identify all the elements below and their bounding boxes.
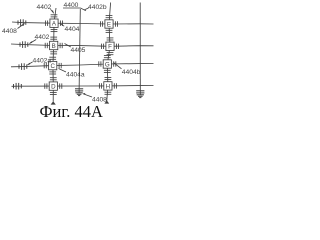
capacitor plates left of cell E: [101, 21, 103, 26]
capacitor plates left of cell C: [44, 63, 46, 68]
capacitor plates left of cell A: [46, 21, 48, 26]
svg-text:4402: 4402: [35, 34, 50, 41]
memory cell B (4405): [50, 41, 58, 50]
label 4408 (left word line): [2, 23, 25, 35]
ground (right plate line): [137, 93, 144, 98]
capacitor plates below cell G: [104, 70, 111, 72]
wire plate line (vertical between columns): [79, 9, 80, 91]
label 4400 (array reference, underlined): [63, 2, 86, 11]
capacitor plates left of cell H: [99, 83, 101, 88]
capacitor plates right of cell H: [114, 83, 116, 88]
capacitor plates left of cell G: [99, 61, 101, 66]
memory cell E: [105, 20, 113, 29]
memory cell C (4404a): [49, 61, 57, 70]
arrowhead at bottom of column 2 bit line: [104, 100, 109, 103]
svg-text:G: G: [105, 61, 110, 68]
capacitor plates right of cell A: [60, 21, 62, 26]
svg-text:B: B: [52, 43, 56, 50]
wire word line 4 (horizontal row 4): [12, 85, 154, 88]
capacitor 4402 in word line 2: [20, 41, 28, 48]
capacitor plates left of cell F: [102, 44, 104, 49]
capacitor plates above cell F: [107, 38, 114, 40]
svg-text:4404: 4404: [65, 26, 80, 33]
capacitor plates below cell H: [105, 92, 112, 94]
wire word line 2 (horizontal row 2): [11, 44, 154, 46]
svg-text:4404a: 4404a: [66, 72, 85, 79]
label 4404a (cell C): [59, 69, 85, 79]
svg-text:4402b: 4402b: [88, 4, 107, 11]
wire bit line through cells A-D (column 1 vertical): [53, 8, 56, 102]
svg-text:D: D: [51, 84, 56, 91]
capacitor plates left of cell B: [45, 43, 47, 48]
label 4408 (ground at plate line): [82, 93, 107, 104]
svg-text:E: E: [107, 21, 111, 28]
capacitor plates above cell C: [49, 57, 56, 59]
svg-text:4408: 4408: [2, 28, 17, 35]
capacitor plates above cell D: [50, 78, 57, 80]
memory cell A (4404): [50, 19, 58, 28]
capacitor plates right of cell D: [60, 83, 62, 88]
capacitor plates right of cell G: [114, 61, 116, 66]
capacitor plates right of cell B: [60, 43, 62, 48]
label 4402a (capacitor in word line 3): [27, 57, 51, 65]
capacitor plates above cell A: [51, 15, 58, 17]
capacitor above ground (right plate line): [136, 91, 144, 93]
wire word line 1 (horizontal row 1): [12, 22, 154, 24]
capacitor plates below cell D: [50, 92, 57, 94]
capacitor plates left of cell D: [45, 83, 47, 88]
svg-text:4402a: 4402a: [33, 57, 52, 64]
label 4402b (capacitor top right): [84, 4, 107, 11]
svg-text:C: C: [50, 63, 55, 70]
label 4402 (top, capacitor above cell A): [37, 4, 54, 14]
capacitor above ground 4408 (center plate line): [75, 89, 83, 91]
svg-text:4405: 4405: [71, 47, 86, 54]
capacitor plates below cell A: [51, 30, 58, 32]
capacitor plates above cell H: [105, 78, 112, 80]
capacitor plates right of cell C: [59, 63, 61, 68]
memory cell G (4404b): [103, 60, 111, 69]
svg-text:4404b: 4404b: [122, 69, 141, 76]
memory cell F: [106, 42, 114, 51]
capacitor plates below cell C: [49, 72, 56, 74]
svg-text:Фиг. 44А: Фиг. 44А: [40, 102, 104, 120]
capacitor 4402a in word line 3: [19, 63, 27, 70]
capacitor plates below cell F: [107, 53, 114, 55]
arrowhead at bottom of column 1 bit line: [51, 101, 56, 104]
capacitor plates below cell E: [106, 30, 113, 32]
ground 4408 (center plate line): [76, 91, 83, 96]
wire bit line through cells E-H (column 2 vertical): [107, 3, 111, 101]
capacitor 4402 in word line 4: [14, 83, 22, 90]
capacitor plates above cell B: [50, 37, 57, 39]
svg-text:F: F: [108, 44, 112, 51]
label 4404b (cell G): [114, 63, 141, 76]
label 4404 (cell A): [61, 24, 80, 33]
memory cell H: [104, 82, 112, 91]
wire word line 3 (horizontal row 3): [11, 64, 154, 67]
label 4402 (capacitor in word line 2): [29, 34, 50, 44]
capacitor 4402 in word line 1: [18, 19, 26, 26]
label 4405 (cell B): [65, 44, 86, 55]
capacitor plates below cell B: [50, 52, 57, 54]
wire plate line (right vertical): [139, 3, 141, 94]
capacitor plates right of cell E: [115, 21, 117, 26]
svg-text:H: H: [106, 83, 110, 90]
capacitor plates above cell G: [104, 56, 111, 58]
capacitor plates above cell E: [106, 16, 113, 18]
capacitor plates right of cell F: [116, 44, 118, 49]
svg-text:4402: 4402: [37, 4, 52, 11]
memory cell D: [49, 82, 57, 91]
